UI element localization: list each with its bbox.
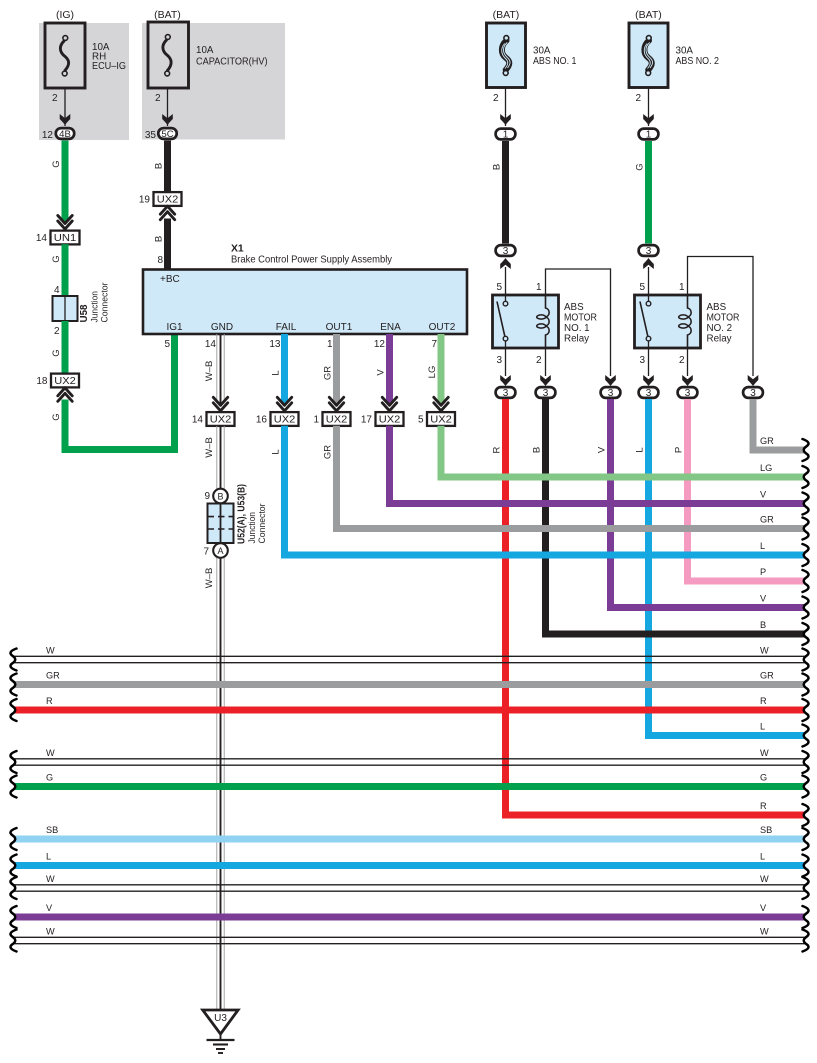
svg-text:1: 1: [536, 282, 542, 293]
svg-text:ABS: ABS: [707, 302, 727, 313]
break symbol left W 659: [10, 649, 16, 671]
svg-text:SB: SB: [760, 825, 772, 835]
svg-text:3: 3: [685, 388, 691, 399]
svg-text:U3: U3: [214, 1013, 227, 1024]
svg-text:R: R: [760, 801, 767, 811]
svg-text:13: 13: [269, 339, 281, 350]
svg-text:OUT2: OUT2: [429, 322, 456, 333]
X1 pin numbers: [164, 339, 437, 350]
svg-text:3: 3: [646, 246, 652, 257]
break symbol right V 607: [803, 597, 809, 619]
bus L: [14, 862, 805, 869]
chevron OUT2: [434, 397, 448, 411]
svg-text:9: 9: [204, 491, 210, 502]
svg-text:L: L: [635, 447, 646, 452]
svg-text:2: 2: [155, 93, 161, 104]
svg-text:UX2: UX2: [54, 376, 76, 387]
relay ABS MOTOR NO.2: [635, 295, 701, 348]
connector UX2 pin 19: [139, 192, 182, 206]
svg-text:GR: GR: [760, 514, 774, 524]
break symbol right W 659: [803, 649, 809, 671]
svg-text:19: 19: [139, 195, 151, 206]
svg-text:R: R: [492, 446, 503, 453]
wire relay2 coil pin1 branch: [688, 257, 754, 377]
svg-text:ABS NO. 2: ABS NO. 2: [676, 56, 720, 67]
svg-text:W–B: W–B: [204, 437, 215, 458]
break symbol right V 917: [803, 906, 809, 928]
svg-text:G: G: [635, 163, 646, 170]
chevron ENA: [382, 397, 396, 411]
inline connector chevron up G: [58, 388, 72, 402]
wire W-B to junction B: [217, 426, 224, 489]
label U52(A) U53(B) Junction Connector: [237, 484, 269, 544]
wire W-B junction A to ground: [217, 558, 224, 1009]
svg-text:1: 1: [646, 130, 652, 141]
wire LG OUT2 drop: [438, 334, 445, 404]
wire relay1 coil pin1 branch: [546, 269, 611, 376]
wire fuse4 to connector 1: [648, 88, 650, 127]
svg-text:GR: GR: [323, 366, 334, 380]
svg-text:B: B: [154, 163, 165, 169]
svg-text:Connector: Connector: [100, 283, 111, 323]
arrow into 4B: [60, 114, 71, 125]
svg-text:L: L: [760, 541, 765, 551]
connector 3 below relay2 pin3: [639, 387, 659, 399]
svg-text:UX2: UX2: [379, 415, 401, 426]
connector UX2 pin 1 OUT1: [313, 412, 350, 426]
bus W 4: [14, 937, 805, 943]
wire P horizontal right: [684, 578, 805, 585]
svg-text:R: R: [760, 696, 767, 706]
connector 3 above relay1: [496, 245, 516, 257]
svg-text:G: G: [51, 160, 62, 167]
svg-text:14: 14: [192, 415, 204, 426]
wire L FAIL horizontal right: [281, 552, 805, 559]
svg-text:L: L: [760, 851, 765, 861]
arrow down relay1 pin3: [500, 375, 511, 386]
svg-text:3: 3: [503, 246, 509, 257]
break symbol right GR 450: [803, 439, 809, 461]
svg-text:V: V: [760, 593, 767, 603]
wire L horizontal right: [645, 732, 805, 739]
wire G fuse4 to relay conn: [645, 141, 652, 244]
wire fuse3 to connector 1: [505, 88, 507, 127]
connector 3 below relay1 branch: [601, 387, 621, 399]
svg-text:G: G: [46, 772, 53, 782]
label U58 Junction Connector: [79, 283, 111, 323]
svg-text:R: R: [46, 696, 53, 706]
svg-text:10A: 10A: [196, 45, 214, 56]
svg-text:3: 3: [608, 388, 614, 399]
bus G: [14, 783, 805, 790]
connector UX2 pin 17 ENA: [361, 412, 404, 426]
svg-text:5: 5: [418, 415, 424, 426]
svg-text:G: G: [51, 413, 62, 420]
arrow into 5C: [162, 114, 173, 125]
svg-text:LG: LG: [760, 463, 772, 473]
arrow up into connector 3 relay1: [500, 258, 511, 269]
arrow down relay1 pin2: [540, 375, 551, 386]
svg-text:OUT1: OUT1: [326, 322, 353, 333]
svg-text:B: B: [532, 447, 543, 453]
svg-text:U58: U58: [79, 304, 90, 323]
svg-text:UX2: UX2: [157, 195, 179, 206]
svg-text:(BAT): (BAT): [635, 9, 662, 21]
svg-text:UX2: UX2: [210, 415, 232, 426]
svg-text:ABS: ABS: [564, 302, 584, 313]
left bus labels: [46, 645, 60, 936]
svg-text:MOTOR: MOTOR: [564, 313, 597, 324]
svg-text:UN1: UN1: [54, 233, 77, 244]
relay ABS MOTOR NO.1: [493, 295, 559, 348]
wire P relay2 pin2 vertical: [684, 399, 691, 585]
svg-text:SB: SB: [46, 825, 58, 835]
wire fuse1 to connector 4B: [64, 88, 66, 126]
svg-text:12: 12: [374, 339, 386, 350]
svg-text:V: V: [597, 446, 608, 453]
fuse 30A ABS NO.2: [629, 23, 668, 88]
label ABS MOTOR NO.2 Relay: [707, 302, 740, 345]
wire GR horizontal right: [750, 447, 806, 454]
svg-text:18: 18: [36, 376, 48, 387]
break symbol left GR 684: [10, 674, 16, 696]
svg-text:ABS NO. 1: ABS NO. 1: [533, 56, 577, 67]
svg-text:L: L: [271, 449, 282, 454]
svg-text:4B: 4B: [59, 129, 71, 140]
break symbol left L 865: [10, 855, 16, 877]
break symbol right W 888: [803, 877, 809, 899]
svg-text:W: W: [760, 645, 769, 655]
break symbol right G 786: [803, 776, 809, 798]
X1 pin labels: [166, 322, 455, 333]
svg-text:5: 5: [164, 339, 170, 350]
svg-text:W: W: [46, 926, 55, 936]
svg-text:GR: GR: [760, 436, 774, 446]
svg-text:3: 3: [646, 388, 652, 399]
wire G to IG1 pin of X1: [65, 334, 175, 450]
wire B relay1 pin2 vertical: [542, 399, 549, 638]
break symbol right L 555: [803, 544, 809, 566]
svg-text:2: 2: [52, 93, 58, 104]
svg-text:V: V: [760, 903, 767, 913]
connector UX2 pin 5 OUT2: [418, 412, 455, 426]
svg-text:MOTOR: MOTOR: [707, 313, 740, 324]
wire B horizontal right: [542, 631, 805, 638]
svg-text:B: B: [217, 492, 223, 502]
svg-text:1: 1: [313, 415, 319, 426]
wire L FAIL vertical: [281, 426, 288, 559]
svg-text:Brake Control Power Supply Ass: Brake Control Power Supply Assembly: [231, 255, 393, 266]
bus W 2: [14, 759, 805, 765]
arrow down relay2 pin2: [682, 375, 693, 386]
break symbol right L 735: [803, 725, 809, 747]
svg-text:G: G: [51, 255, 62, 262]
ECU X1 Brake Control Power Supply Assembly: [143, 270, 467, 335]
wire R relay1 pin3 vertical: [502, 399, 509, 819]
junction connector U52(A) U53(B): [208, 489, 234, 558]
svg-text:5: 5: [496, 282, 502, 293]
wire V ENA drop: [386, 334, 393, 404]
arrow down relay2 pin3: [643, 375, 654, 386]
break symbol left SB 839: [10, 828, 16, 850]
shaded block IG fuse area: [39, 23, 129, 140]
arrow down relay1 branch: [605, 375, 616, 386]
svg-text:L: L: [46, 851, 51, 861]
inline connector chevron up B: [160, 206, 174, 220]
wire V relay1 branch vertical: [607, 399, 614, 611]
svg-text:GND: GND: [211, 322, 233, 333]
bus GR: [14, 681, 805, 688]
break symbol right GR 528: [803, 518, 809, 540]
svg-text:3: 3: [543, 388, 549, 399]
svg-text:V: V: [760, 489, 767, 499]
break symbol left W 940: [10, 930, 16, 952]
svg-text:P: P: [674, 447, 685, 453]
svg-text:W: W: [760, 926, 769, 936]
wire G from 4B down: [62, 141, 69, 222]
connector 3 below relay1 pin3: [496, 387, 516, 399]
wire fuse2 to connector 5C: [167, 88, 169, 127]
wire B fuse3 to relay conn: [502, 141, 509, 244]
svg-text:G: G: [760, 772, 767, 782]
break symbol left W 762: [10, 751, 16, 773]
svg-text:X1: X1: [231, 244, 244, 255]
connector 5C: [158, 128, 176, 140]
break symbol right W 762: [803, 751, 809, 773]
svg-text:GR: GR: [760, 670, 774, 680]
svg-text:7: 7: [431, 339, 437, 350]
svg-text:V: V: [376, 369, 387, 376]
connector UX2 pin 18: [36, 374, 79, 388]
bus R: [14, 707, 805, 714]
break symbol left W 888: [10, 877, 16, 899]
junction connector U58: [53, 296, 78, 321]
svg-text:NO. 1: NO. 1: [564, 323, 590, 334]
svg-text:1: 1: [679, 282, 685, 293]
break symbol right P 581: [803, 570, 809, 592]
wire GR OUT1 vertical: [333, 426, 340, 532]
svg-text:3: 3: [496, 355, 502, 366]
svg-text:3: 3: [639, 355, 645, 366]
connector 3 below relay2 branch: [743, 387, 763, 399]
chevron OUT1: [329, 397, 343, 411]
svg-text:Relay: Relay: [707, 334, 732, 345]
svg-text:2: 2: [536, 355, 542, 366]
fuse 10A RH ECU-IG: [45, 23, 85, 88]
wire B to +BC pin 8: [164, 219, 171, 270]
break symbol right R 815: [803, 804, 809, 826]
break symbol right V 503: [803, 493, 809, 515]
wire GR relay2 branch vertical: [750, 399, 757, 454]
break symbol left V 917: [10, 906, 16, 928]
wire V ENA vertical: [386, 426, 393, 507]
svg-text:W: W: [46, 874, 55, 884]
svg-text:L: L: [760, 721, 765, 731]
svg-text:3: 3: [503, 388, 509, 399]
right bus labels: [760, 436, 774, 937]
arrow down relay2 branch: [748, 375, 759, 386]
arrow into conn 1 f4: [643, 114, 654, 125]
svg-text:W: W: [760, 874, 769, 884]
wire V horizontal right: [607, 604, 805, 611]
svg-text:14: 14: [205, 339, 217, 350]
svg-text:(BAT): (BAT): [154, 9, 181, 21]
wire LG horizontal right: [438, 474, 806, 481]
svg-text:1: 1: [503, 130, 509, 141]
connector 4B: [56, 128, 74, 140]
svg-text:B: B: [154, 236, 165, 242]
svg-text:W: W: [46, 748, 55, 758]
connector UX2 pin 16 FAIL: [256, 412, 299, 426]
svg-text:Connector: Connector: [257, 504, 268, 544]
wire GR OUT1 horizontal right: [333, 525, 805, 532]
wire L relay2 pin3 vertical: [645, 399, 652, 739]
wire G UN1 to U58: [62, 244, 69, 296]
connector UX2 pin 14 GND: [192, 412, 235, 426]
svg-text:UX2: UX2: [274, 415, 296, 426]
svg-text:3: 3: [750, 388, 756, 399]
svg-text:B: B: [492, 164, 503, 170]
connector 3 above relay2: [639, 245, 659, 257]
svg-text:G: G: [51, 349, 62, 356]
wire relay1 pin2 down: [545, 348, 547, 376]
arrow into conn 1 f3: [500, 114, 511, 125]
svg-text:14: 14: [36, 233, 48, 244]
wire conn3 to relay1 pin5: [505, 267, 507, 295]
break symbol right GR 684: [803, 674, 809, 696]
svg-text:30A: 30A: [676, 46, 694, 57]
wire conn3 to relay2 pin5: [648, 267, 650, 295]
svg-text:7: 7: [203, 547, 209, 558]
chevron FAIL: [277, 397, 291, 411]
break symbol right W 940: [803, 930, 809, 952]
svg-text:Relay: Relay: [564, 334, 589, 345]
svg-text:5C: 5C: [161, 129, 173, 140]
svg-text:2: 2: [493, 93, 499, 104]
svg-text:+BC: +BC: [160, 274, 180, 285]
svg-text:12: 12: [42, 130, 54, 141]
shaded block BAT fuse area: [142, 23, 285, 140]
svg-text:2: 2: [54, 326, 60, 337]
connector 1 fuse3: [496, 129, 516, 141]
bus W 1: [14, 656, 805, 662]
wire G U58 to UX2: [62, 321, 69, 374]
break symbol left G 786: [10, 776, 16, 798]
svg-text:UX2: UX2: [430, 415, 452, 426]
connector 3 below relay1 pin2: [536, 387, 556, 399]
svg-text:P: P: [760, 567, 766, 577]
wire L FAIL drop: [281, 334, 288, 404]
connector 3 below relay2 pin2: [678, 387, 698, 399]
svg-text:W: W: [760, 748, 769, 758]
svg-text:17: 17: [361, 415, 373, 426]
fuse 10A CAPACITOR(HV): [148, 22, 189, 88]
svg-text:ECU–IG: ECU–IG: [92, 61, 126, 72]
break symbol right LG 477: [803, 466, 809, 488]
svg-text:CAPACITOR(HV): CAPACITOR(HV): [196, 57, 268, 68]
svg-text:GR: GR: [323, 445, 334, 459]
svg-text:UX2: UX2: [326, 415, 348, 426]
svg-text:W–B: W–B: [204, 361, 215, 382]
bus W 3: [14, 885, 805, 891]
break symbol right R 710: [803, 699, 809, 721]
svg-text:(BAT): (BAT): [493, 9, 520, 21]
bus V: [14, 914, 805, 921]
svg-text:L: L: [271, 370, 282, 375]
svg-text:1: 1: [327, 339, 333, 350]
connector UN1 pin 14: [36, 231, 80, 245]
ground U3: [203, 1010, 238, 1053]
svg-text:W: W: [46, 645, 55, 655]
svg-text:35: 35: [145, 130, 157, 141]
svg-text:4: 4: [54, 285, 60, 296]
svg-text:5: 5: [639, 282, 645, 293]
break symbol right L 865: [803, 855, 809, 877]
svg-text:NO. 2: NO. 2: [707, 323, 733, 334]
svg-text:B: B: [760, 620, 766, 630]
wire B from 5C down: [164, 141, 171, 193]
break symbol right SB 839: [803, 828, 809, 850]
fuse 30A ABS NO.1: [487, 23, 526, 88]
break symbol left R 710: [10, 699, 16, 721]
svg-text:30A: 30A: [533, 46, 551, 57]
svg-text:FAIL: FAIL: [276, 322, 297, 333]
arrow up into connector 3 relay2: [643, 258, 654, 269]
break symbol right B 634: [803, 623, 809, 645]
svg-text:IG1: IG1: [166, 322, 183, 333]
svg-text:V: V: [46, 903, 53, 913]
svg-text:GR: GR: [46, 670, 60, 680]
svg-text:LG: LG: [427, 366, 438, 379]
svg-text:8: 8: [157, 255, 163, 266]
label ABS MOTOR NO.1 Relay: [564, 302, 597, 345]
wire R horizontal right: [502, 812, 805, 819]
wire V ENA horizontal right: [386, 500, 805, 507]
wire relay2 pin2 down: [687, 348, 689, 376]
svg-text:ENA: ENA: [380, 322, 401, 333]
wire relay1 pin3 down: [505, 348, 507, 376]
svg-text:W–B: W–B: [204, 568, 215, 589]
wire LG OUT2 vertical: [438, 426, 445, 481]
svg-text:2: 2: [635, 93, 641, 104]
inline connector chevron G: [58, 216, 72, 230]
wire W-B GND drop: [217, 334, 224, 404]
bus SB: [14, 836, 805, 843]
connector 1 fuse4: [639, 129, 659, 141]
svg-text:2: 2: [679, 355, 685, 366]
wire GR OUT1 drop: [333, 334, 340, 404]
svg-text:16: 16: [256, 415, 268, 426]
svg-text:(IG): (IG): [56, 9, 74, 21]
wire relay2 pin3 down: [648, 348, 650, 376]
svg-text:A: A: [217, 546, 223, 556]
svg-text:U52(A), U53(B): U52(A), U53(B): [237, 484, 248, 544]
chevron GND: [213, 397, 227, 411]
